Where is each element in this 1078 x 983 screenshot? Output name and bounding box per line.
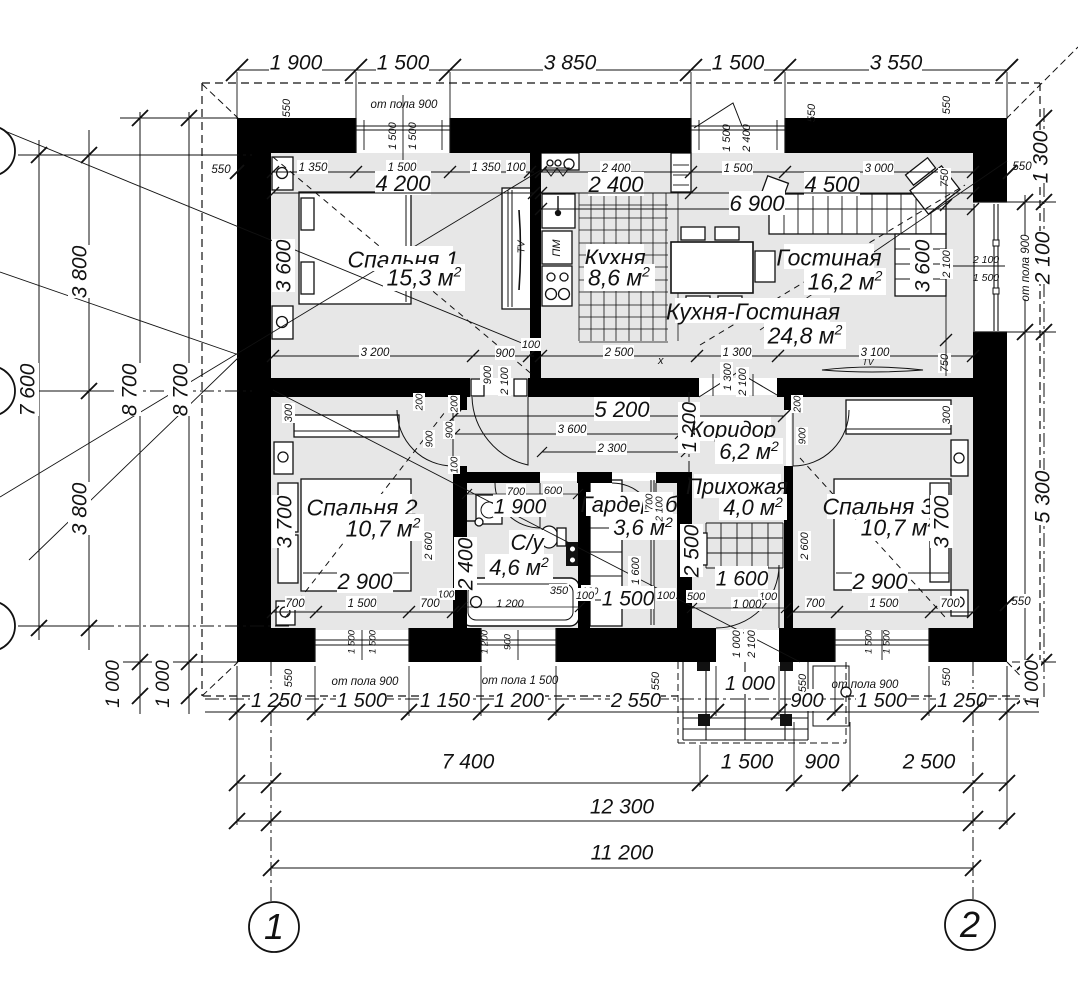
svg-text:200: 200 bbox=[793, 395, 804, 413]
dining table bbox=[671, 242, 753, 293]
svg-text:15,3 м2: 15,3 м2 bbox=[387, 263, 462, 290]
bottom dim row 3 bbox=[236, 666, 238, 825]
svg-text:900: 900 bbox=[804, 751, 839, 774]
axis circle 2 bbox=[945, 900, 995, 950]
svg-text:2 100: 2 100 bbox=[737, 367, 749, 396]
outer top wall bbox=[237, 118, 356, 153]
svg-text:550: 550 bbox=[650, 671, 662, 690]
porch bbox=[682, 662, 684, 740]
svg-text:от пола 900: от пола 900 bbox=[832, 679, 900, 691]
wall su-garderob bbox=[578, 481, 590, 628]
svg-text:2 100: 2 100 bbox=[1032, 231, 1055, 285]
svg-text:3 000: 3 000 bbox=[865, 163, 894, 175]
svg-text:200: 200 bbox=[415, 393, 426, 411]
wall bedroom2 right bbox=[453, 395, 467, 410]
svg-text:100: 100 bbox=[522, 339, 541, 351]
svg-text:1 500: 1 500 bbox=[721, 751, 774, 774]
floors bbox=[271, 153, 536, 378]
svg-text:2 500: 2 500 bbox=[604, 347, 634, 359]
svg-text:8,6 м2: 8,6 м2 bbox=[588, 263, 650, 290]
armchair bbox=[901, 154, 960, 214]
svg-text:300: 300 bbox=[941, 405, 953, 424]
window top bedroom1 bbox=[355, 118, 357, 153]
svg-text:х: х bbox=[657, 355, 664, 367]
svg-text:3 600: 3 600 bbox=[273, 239, 296, 292]
label su bbox=[509, 530, 544, 554]
svg-text:100: 100 bbox=[450, 456, 461, 473]
roof overhang dashed bbox=[202, 82, 1040, 84]
svg-text:1 000: 1 000 bbox=[725, 673, 775, 695]
svg-text:3 800: 3 800 bbox=[69, 245, 92, 298]
svg-text:2 100: 2 100 bbox=[746, 629, 758, 658]
kitchen partition bbox=[530, 153, 541, 378]
svg-text:1 500: 1 500 bbox=[724, 163, 753, 175]
kitchen floor tile grid bbox=[578, 193, 580, 341]
svg-text:TV: TV bbox=[517, 239, 528, 253]
svg-text:550: 550 bbox=[281, 98, 293, 117]
svg-text:от пола 900: от пола 900 bbox=[332, 676, 400, 688]
svg-text:7 600: 7 600 bbox=[17, 363, 40, 416]
label kitchen bbox=[586, 244, 644, 269]
axis circles left edge bbox=[0, 126, 15, 176]
garderob dims bbox=[601, 586, 654, 609]
label bedroom3 bbox=[827, 494, 928, 519]
svg-text:2 100: 2 100 bbox=[499, 366, 511, 395]
door arc bedroom3 bbox=[793, 410, 849, 466]
svg-text:1 000: 1 000 bbox=[731, 629, 743, 657]
svg-text:1 500: 1 500 bbox=[337, 690, 387, 712]
svg-text:1 350: 1 350 bbox=[299, 162, 328, 174]
svg-text:350: 350 bbox=[550, 585, 569, 597]
top dim extension lines bbox=[236, 72, 238, 119]
svg-text:1 300: 1 300 bbox=[722, 362, 734, 390]
bottom dim row 2 bbox=[699, 745, 701, 787]
svg-text:1 300: 1 300 bbox=[723, 347, 752, 359]
svg-text:11 200: 11 200 bbox=[591, 842, 654, 865]
bedroom3 nightstand bbox=[951, 440, 968, 476]
label bedroom1 bbox=[352, 246, 453, 271]
bottom dim row 1 bbox=[236, 666, 238, 716]
svg-text:2 100: 2 100 bbox=[972, 254, 999, 266]
svg-text:24,8 м2: 24,8 м2 bbox=[767, 321, 843, 348]
svg-text:2 500: 2 500 bbox=[681, 524, 704, 578]
door arc garderob bbox=[612, 483, 656, 527]
porch posts bbox=[697, 662, 710, 671]
svg-text:900: 900 bbox=[482, 365, 494, 384]
svg-text:5 300: 5 300 bbox=[1032, 470, 1055, 523]
svg-text:1 500: 1 500 bbox=[602, 588, 655, 611]
window top kitchen-living bbox=[690, 118, 692, 153]
bedroom1 bed bbox=[299, 192, 411, 304]
bedroom2 nightstand bbox=[274, 442, 293, 474]
wall garderob-prihozhaya bbox=[677, 472, 692, 628]
svg-text:2 100: 2 100 bbox=[655, 496, 666, 522]
top dim line bbox=[237, 69, 1007, 71]
svg-text:12 300: 12 300 bbox=[590, 796, 655, 819]
svg-text:3 700: 3 700 bbox=[274, 495, 297, 548]
svg-text:2: 2 bbox=[959, 904, 980, 945]
wall prihozhaya-bedroom3 bbox=[784, 395, 793, 410]
svg-text:550: 550 bbox=[283, 668, 295, 687]
svg-text:2 900: 2 900 bbox=[336, 569, 393, 594]
label living bbox=[784, 244, 874, 269]
porch side pad bbox=[813, 666, 849, 726]
svg-text:700: 700 bbox=[507, 486, 526, 498]
svg-text:8 700: 8 700 bbox=[170, 363, 193, 416]
svg-text:4,0 м2: 4,0 м2 bbox=[723, 494, 783, 520]
chairs bbox=[681, 227, 705, 240]
entrance door arc bbox=[716, 565, 779, 628]
svg-text:4 200: 4 200 bbox=[375, 171, 431, 196]
svg-text:10,7 м2: 10,7 м2 bbox=[861, 513, 936, 540]
svg-text:10,7 м2: 10,7 м2 bbox=[346, 514, 421, 541]
svg-text:100: 100 bbox=[438, 590, 455, 601]
outer left wall bbox=[237, 118, 271, 662]
svg-text:2 550: 2 550 bbox=[610, 690, 661, 712]
svg-text:300: 300 bbox=[283, 403, 295, 422]
bedroom3 dims bbox=[930, 495, 953, 548]
svg-text:2 900: 2 900 bbox=[851, 569, 908, 594]
svg-text:1 000: 1 000 bbox=[733, 599, 762, 611]
interior dims kitchen-living top bbox=[541, 171, 973, 173]
interior dims bedroom1 top bbox=[273, 171, 534, 173]
svg-text:900: 900 bbox=[790, 690, 823, 712]
bathtub bbox=[462, 578, 579, 626]
bottom dim row 4 bbox=[271, 867, 973, 869]
svg-text:16,2 м2: 16,2 м2 bbox=[808, 267, 883, 294]
svg-text:С/у: С/у bbox=[511, 530, 546, 555]
svg-text:1 600: 1 600 bbox=[630, 556, 642, 584]
corridor passage step bbox=[699, 372, 777, 397]
svg-text:от пола 900: от пола 900 bbox=[1020, 234, 1032, 302]
window bottom bedroom2 bbox=[314, 628, 316, 662]
svg-text:1 000: 1 000 bbox=[103, 660, 124, 708]
svg-text:1 500: 1 500 bbox=[863, 629, 874, 653]
bedroom1 tv cabinet bbox=[502, 188, 534, 309]
svg-text:550: 550 bbox=[211, 164, 231, 176]
svg-text:700: 700 bbox=[420, 598, 440, 610]
bedroom1 nightstands bbox=[272, 157, 293, 190]
svg-text:3 550: 3 550 bbox=[870, 52, 923, 75]
su dims bbox=[454, 537, 477, 590]
tv in living room bbox=[822, 367, 923, 372]
right dim lines bbox=[1024, 195, 1026, 700]
svg-text:от пола 1 500: от пола 1 500 bbox=[482, 675, 559, 687]
svg-text:6 900: 6 900 bbox=[729, 191, 785, 216]
svg-text:1 500: 1 500 bbox=[712, 52, 765, 75]
bedroom2 wardrobe bbox=[294, 415, 399, 437]
label bedroom2 bbox=[311, 494, 412, 519]
svg-text:2 600: 2 600 bbox=[423, 531, 435, 560]
svg-text:1 500: 1 500 bbox=[857, 690, 907, 712]
garderob shelving bbox=[590, 480, 622, 626]
prihozhaya floor grid bbox=[705, 523, 707, 568]
bedroom3 bed bbox=[834, 479, 951, 590]
door arc bedroom1 bbox=[472, 397, 528, 465]
svg-text:900: 900 bbox=[495, 348, 515, 360]
door arc su bbox=[495, 483, 540, 528]
svg-text:1 150: 1 150 bbox=[420, 690, 470, 712]
corridor bottom wall bbox=[453, 472, 540, 483]
kitchen tall unit bbox=[671, 153, 691, 192]
axis circle 1 bbox=[249, 902, 299, 952]
svg-text:900: 900 bbox=[502, 633, 513, 650]
svg-text:1 500: 1 500 bbox=[377, 52, 430, 75]
svg-text:1 500: 1 500 bbox=[348, 598, 377, 610]
bedroom2 bed bbox=[301, 479, 411, 591]
svg-text:1 900: 1 900 bbox=[494, 496, 547, 519]
dashed diagonals bbox=[273, 157, 534, 376]
svg-text:2 400: 2 400 bbox=[455, 537, 478, 591]
svg-text:100: 100 bbox=[506, 162, 526, 174]
svg-text:500: 500 bbox=[687, 591, 706, 603]
svg-text:900: 900 bbox=[425, 430, 436, 447]
window bottom bedroom3 bbox=[834, 628, 836, 662]
svg-text:8 700: 8 700 bbox=[119, 363, 142, 416]
svg-text:2 400: 2 400 bbox=[741, 123, 753, 152]
svg-text:1 200: 1 200 bbox=[496, 598, 524, 610]
axis lines bbox=[0, 154, 252, 156]
bedroom2 dims bbox=[272, 495, 295, 548]
svg-text:1 900: 1 900 bbox=[270, 52, 323, 75]
svg-text:от пола 900: от пола 900 bbox=[371, 99, 439, 111]
svg-text:600: 600 bbox=[544, 485, 563, 497]
door jambs bbox=[471, 379, 484, 396]
svg-text:200: 200 bbox=[450, 395, 461, 413]
svg-text:1 250: 1 250 bbox=[251, 690, 301, 712]
interior dims kitchen-living bottom bbox=[541, 355, 973, 357]
svg-text:5 200: 5 200 bbox=[594, 397, 650, 422]
svg-text:1 350: 1 350 bbox=[472, 162, 501, 174]
window right living bbox=[973, 201, 1007, 203]
svg-text:3 100: 3 100 bbox=[861, 347, 890, 359]
svg-text:550: 550 bbox=[797, 673, 809, 692]
svg-text:550: 550 bbox=[941, 95, 953, 114]
svg-text:Кухня-Гостиная: Кухня-Гостиная bbox=[666, 298, 840, 324]
label garderob bbox=[586, 492, 673, 516]
left dim lines bbox=[38, 140, 40, 640]
roof corner diagonals dashed bbox=[202, 84, 238, 118]
label kitchen-living bbox=[675, 298, 830, 323]
prihozhaya dims bbox=[680, 524, 703, 577]
svg-text:700: 700 bbox=[940, 598, 960, 610]
sight lines bbox=[0, 272, 239, 355]
svg-text:1 500: 1 500 bbox=[407, 121, 419, 149]
svg-text:3 600: 3 600 bbox=[912, 239, 935, 292]
svg-text:1 300: 1 300 bbox=[1030, 130, 1053, 183]
kitchen counters and appliances bbox=[541, 153, 579, 170]
sofa bbox=[769, 194, 946, 234]
svg-text:900: 900 bbox=[445, 421, 456, 438]
svg-text:2 100: 2 100 bbox=[941, 249, 953, 278]
svg-text:4,6 м2: 4,6 м2 bbox=[489, 554, 549, 580]
corridor dims bbox=[455, 415, 784, 417]
svg-text:750: 750 bbox=[939, 353, 951, 372]
svg-text:900: 900 bbox=[798, 427, 809, 444]
svg-text:Гостиная: Гостиная bbox=[776, 244, 881, 270]
svg-text:100: 100 bbox=[657, 590, 676, 602]
svg-text:1 200: 1 200 bbox=[479, 629, 490, 653]
svg-text:1: 1 bbox=[264, 906, 284, 947]
porch dashed outline bbox=[677, 662, 679, 743]
side table bbox=[762, 176, 789, 200]
svg-text:1 500: 1 500 bbox=[870, 598, 899, 610]
interior wall horizontal bbox=[271, 378, 470, 397]
svg-text:ПМ: ПМ bbox=[551, 239, 563, 257]
svg-text:7 400: 7 400 bbox=[442, 751, 495, 774]
interior dims bedroom1 bottom bbox=[273, 355, 534, 357]
label corridor bbox=[695, 417, 771, 441]
svg-text:550: 550 bbox=[806, 103, 818, 122]
svg-text:550: 550 bbox=[941, 667, 953, 686]
outer bottom wall bbox=[237, 628, 315, 662]
svg-text:3 200: 3 200 bbox=[361, 347, 390, 359]
window bottom su bbox=[480, 628, 482, 662]
svg-text:6,2 м2: 6,2 м2 bbox=[719, 438, 779, 464]
svg-text:1 500: 1 500 bbox=[367, 629, 378, 653]
bathroom fixtures bbox=[476, 495, 502, 524]
bedroom3 wardrobe bbox=[846, 400, 951, 434]
svg-text:3 850: 3 850 bbox=[544, 52, 597, 75]
svg-text:1 600: 1 600 bbox=[716, 568, 769, 591]
svg-text:1 200: 1 200 bbox=[494, 690, 544, 712]
svg-text:3 800: 3 800 bbox=[69, 482, 92, 535]
svg-text:1 500: 1 500 bbox=[973, 272, 999, 284]
svg-text:1 500: 1 500 bbox=[721, 123, 733, 151]
door arc bedroom2 bbox=[397, 410, 453, 466]
label prihozhaya bbox=[694, 474, 781, 498]
outer right wall bbox=[973, 118, 1007, 202]
svg-text:1 500: 1 500 bbox=[881, 629, 892, 653]
svg-text:1 500: 1 500 bbox=[346, 629, 357, 653]
svg-text:700: 700 bbox=[805, 598, 825, 610]
svg-text:1 500: 1 500 bbox=[387, 121, 399, 149]
svg-text:2 600: 2 600 bbox=[799, 531, 811, 560]
svg-text:3 700: 3 700 bbox=[931, 495, 954, 548]
svg-text:3 600: 3 600 bbox=[558, 424, 587, 436]
svg-text:2 300: 2 300 bbox=[597, 443, 627, 455]
svg-text:700: 700 bbox=[285, 598, 305, 610]
svg-text:750: 750 bbox=[939, 168, 951, 187]
svg-text:1 250: 1 250 bbox=[937, 690, 987, 712]
svg-text:100: 100 bbox=[576, 590, 595, 602]
svg-text:2 500: 2 500 bbox=[902, 751, 956, 774]
svg-text:1 000: 1 000 bbox=[1022, 660, 1043, 708]
svg-text:1 000: 1 000 bbox=[153, 660, 174, 708]
